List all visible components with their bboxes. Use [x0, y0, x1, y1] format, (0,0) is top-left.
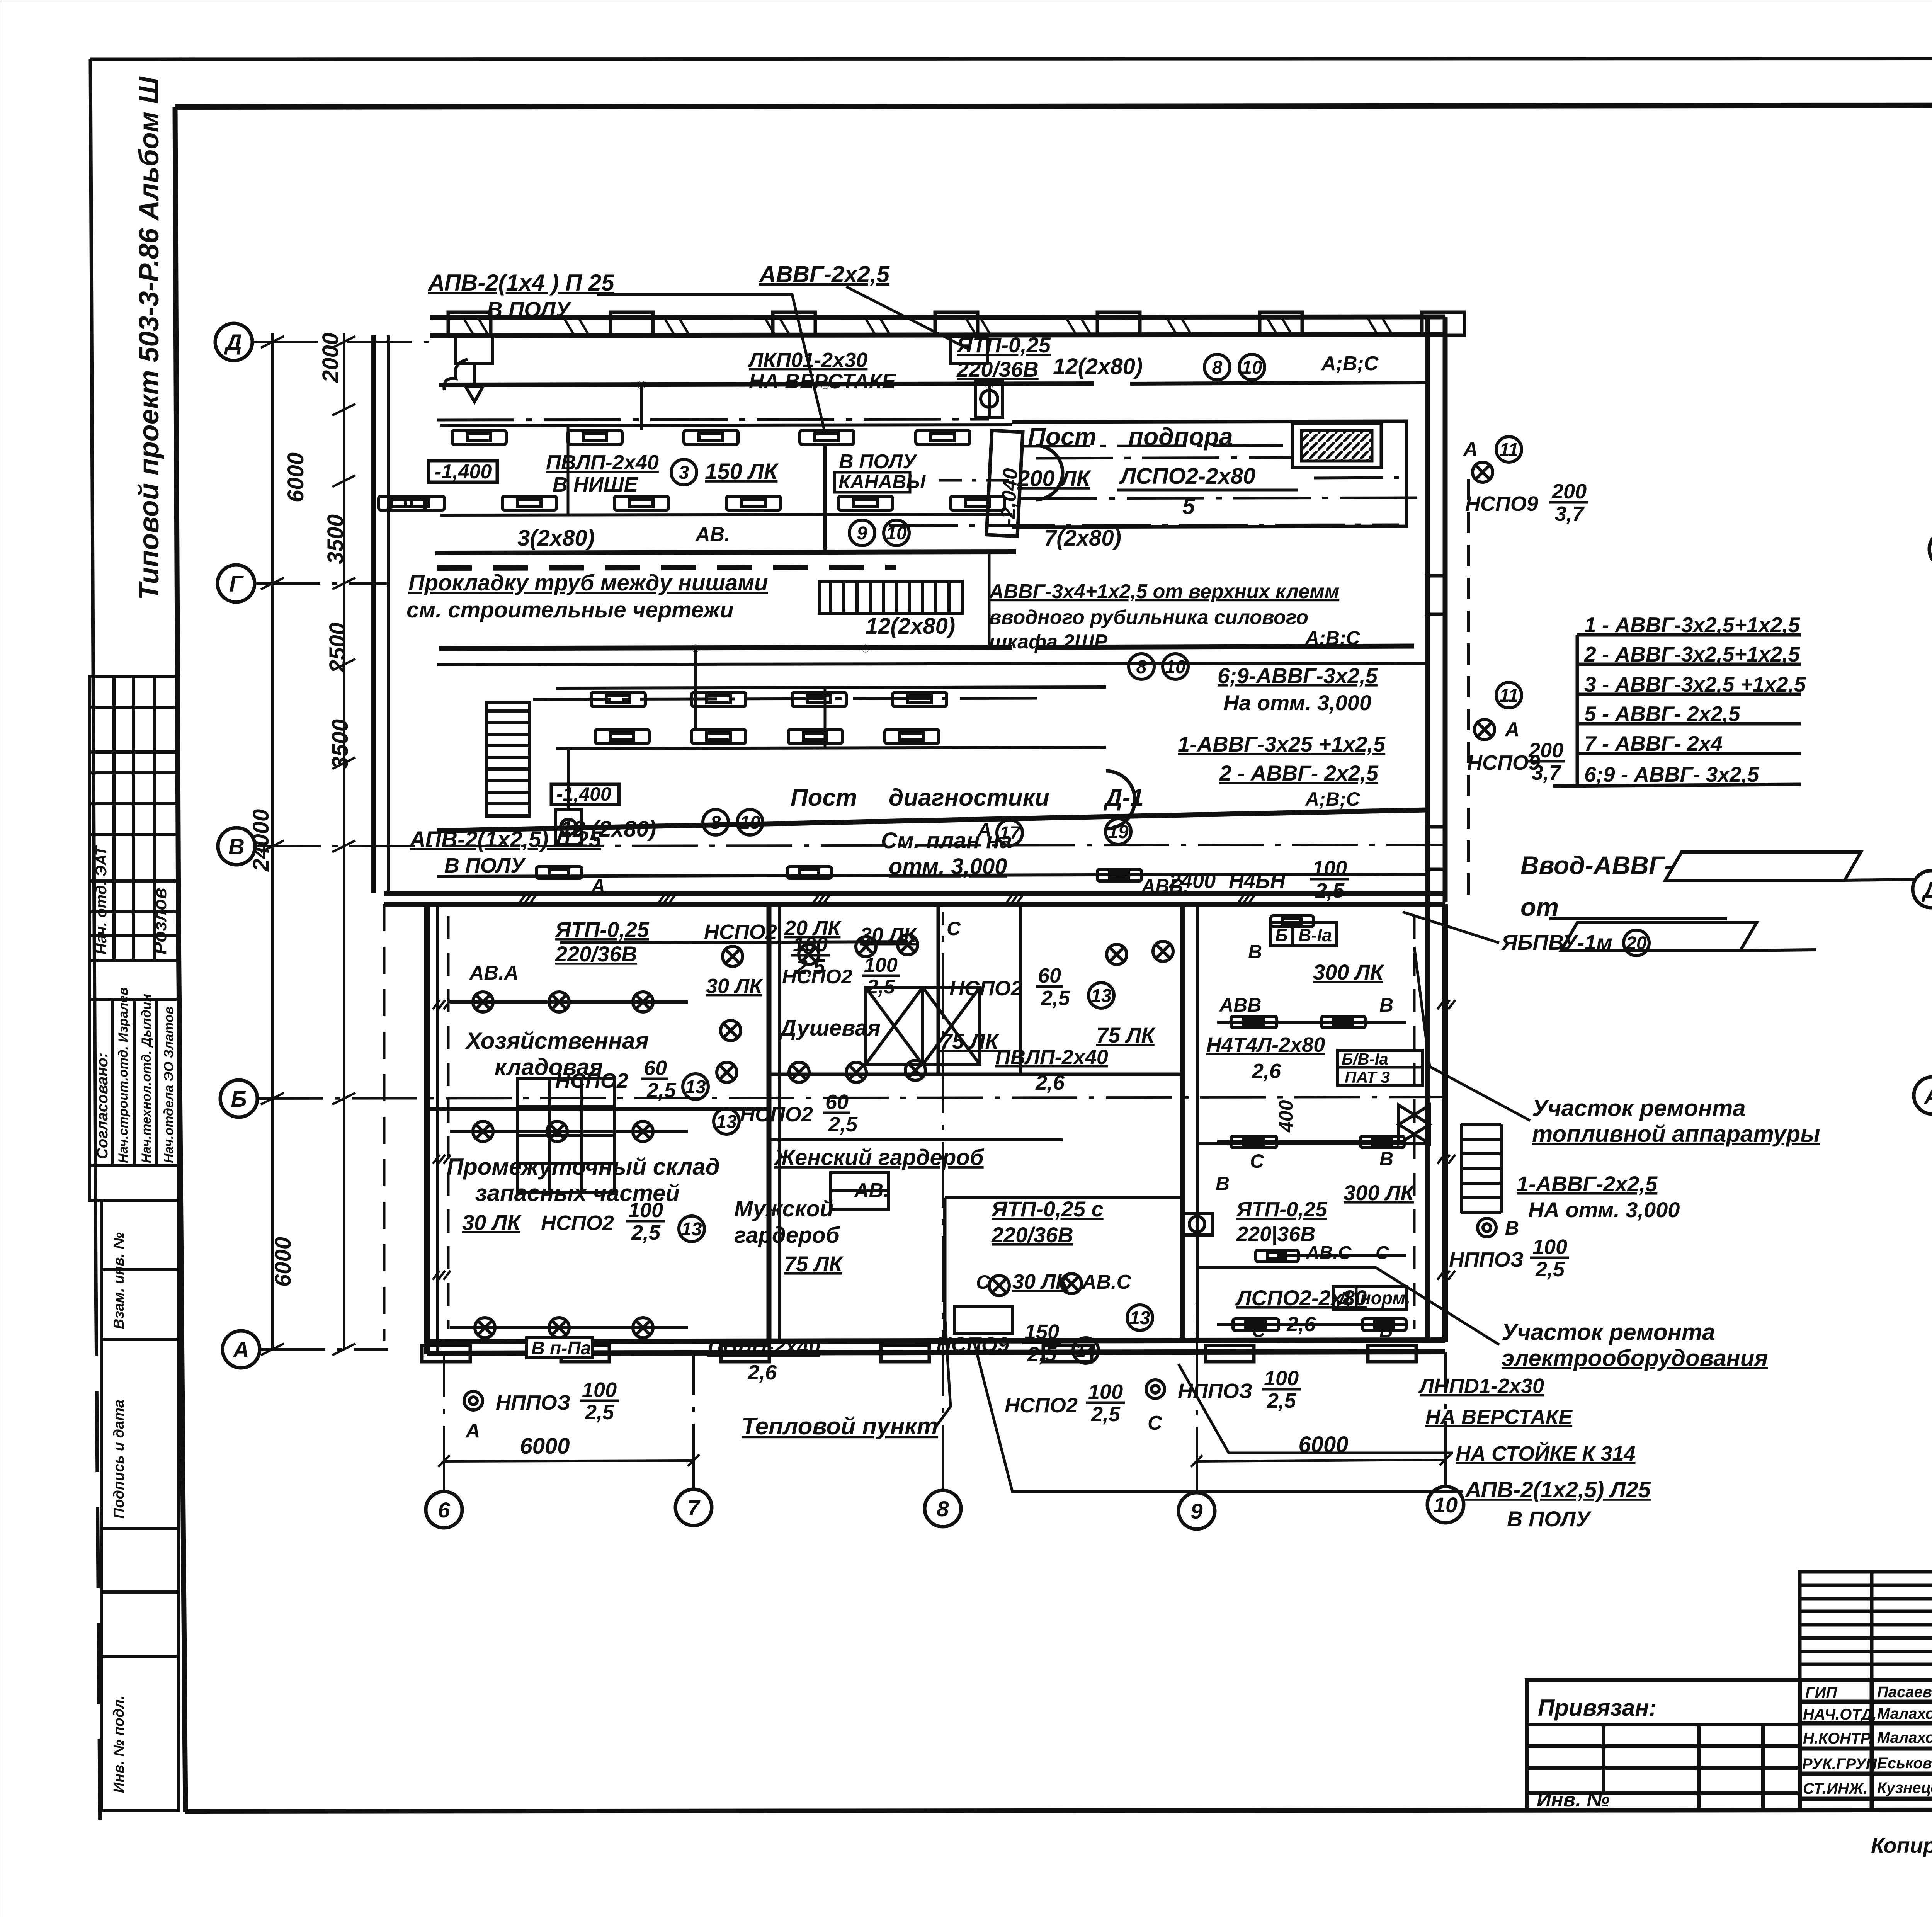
circuit number 10 [884, 520, 909, 546]
luminaire ПВЛП row2-3 [614, 496, 668, 510]
svg-text:200: 200 [1528, 739, 1563, 762]
luminaire уч 1 [1231, 1016, 1277, 1028]
svg-text:100: 100 [582, 1378, 617, 1402]
axis line А [260, 1348, 388, 1351]
svg-text:7 - АВВГ- 2х4: 7 - АВВГ- 2х4 [1584, 731, 1723, 755]
luminaire уч 3 [1231, 1136, 1277, 1148]
luminaire ПВЛП row2-5 [838, 496, 893, 510]
luminaire ПВЛП row2-4 [726, 496, 781, 510]
drawing frame left [175, 107, 185, 1812]
svg-text:2,5: 2,5 [1267, 1389, 1296, 1412]
fraction НППОЗ bl [580, 1378, 619, 1424]
svg-text:отм. 3,000: отм. 3,000 [889, 854, 1007, 879]
svg-text:В ПОЛУ: В ПОЛУ [444, 854, 526, 877]
wire уч4 [1277, 1254, 1406, 1257]
wall pilaster right 1 [1427, 576, 1445, 614]
top wall hatch band [464, 318, 1392, 334]
svg-text:Д: Д [1336, 1288, 1350, 1308]
svg-text:В: В [1216, 1173, 1230, 1194]
circuit number 13 [1127, 1305, 1153, 1330]
svg-text:2,5: 2,5 [828, 1113, 858, 1136]
axis line В [255, 845, 1445, 846]
entry hook left top [444, 359, 468, 390]
svg-text:С: С [1376, 1243, 1389, 1263]
wall тепловой top [945, 1196, 1182, 1199]
luminaire ПВЛП row2-1 [390, 496, 444, 510]
svg-text:13: 13 [1129, 1308, 1150, 1328]
svg-text:Пост: Пост [791, 784, 857, 811]
svg-text:В: В [1379, 994, 1393, 1016]
wall склад top [427, 1107, 769, 1111]
left wall upper hall inner [387, 335, 390, 893]
lower left wall [424, 904, 430, 1354]
dim tick [261, 840, 284, 852]
luminaire уч 6 [1233, 1319, 1279, 1330]
пост подпора dashdot 2 [1314, 478, 1399, 478]
svg-text:НСПО2: НСПО2 [740, 1103, 813, 1126]
svg-text:220/36В: 220/36В [991, 1223, 1073, 1247]
box Б/В-Iа ПАТ 3 [1338, 1050, 1423, 1085]
svg-text:Согласовано:: Согласовано: [94, 1053, 111, 1159]
svg-text:Инв. №: Инв. № [1537, 1789, 1610, 1811]
svg-text:НСПО2: НСПО2 [1005, 1394, 1078, 1417]
luminaire ПВЛП row2-6 [951, 496, 1005, 510]
stairs upper right [819, 581, 962, 613]
level mark -1,400 [429, 461, 497, 482]
wall гардероб [1019, 904, 1022, 1074]
lamp НСПО2 душевая [789, 1062, 809, 1082]
svg-text:220/36В: 220/36В [555, 942, 637, 966]
svg-text:А;В;С: А;В;С [1304, 788, 1361, 810]
wire vertical drop 4 [988, 381, 991, 417]
svg-text:Д-1: Д-1 [1103, 784, 1144, 811]
svg-text:9: 9 [857, 523, 867, 544]
svg-text:от: от [1520, 893, 1559, 921]
luminaire ПВЛП row1-2 [568, 430, 622, 444]
wire уч1 [1217, 1021, 1406, 1024]
svg-text:2 - АВВГ- 2х2,5: 2 - АВВГ- 2х2,5 [1219, 761, 1379, 785]
svg-text:см. строительные чертежи: см. строительные чертежи [406, 597, 734, 623]
luminaire ПВЛП row4-1 [595, 730, 649, 743]
svg-text:подпора: подпора [1128, 423, 1233, 451]
svg-text:220/36В: 220/36В [956, 357, 1039, 381]
svg-text:А: А [232, 1337, 249, 1362]
svg-text:ЛНПD1-2х30: ЛНПD1-2х30 [1418, 1374, 1544, 1398]
svg-text:Взам. инв. №: Взам. инв. № [111, 1232, 127, 1329]
wall гардероб bottom [769, 1138, 1063, 1141]
svg-text:2,5: 2,5 [1027, 1343, 1057, 1366]
wire bus 3x80 [439, 647, 1012, 648]
circuit number 8 [1129, 654, 1154, 679]
lamp НСПО2 душевая [799, 944, 819, 964]
lamp НСПО2 душевая [989, 1276, 1009, 1296]
outdoor dashed line [1467, 479, 1470, 900]
svg-text:3: 3 [679, 463, 689, 483]
svg-text:ГИП: ГИП [1805, 1684, 1837, 1701]
svg-text:А;В;С: А;В;С [1304, 627, 1361, 649]
right wall upper hall outer [1443, 317, 1448, 902]
wire кладовая row2 [450, 1130, 688, 1133]
circuit number 3 [671, 459, 697, 485]
svg-text:6;9-АВВГ-3х2,5: 6;9-АВВГ-3х2,5 [1218, 663, 1378, 688]
svg-text:10: 10 [1242, 357, 1262, 378]
svg-text:2,5: 2,5 [585, 1401, 614, 1424]
svg-text:ЯТП-0,25: ЯТП-0,25 [554, 917, 650, 942]
пост подпора dashdot 1 [1020, 446, 1291, 446]
svg-text:С: С [1148, 1412, 1163, 1434]
leader участок 2 [1198, 1267, 1499, 1345]
pit outline row1 bottom [440, 514, 1012, 515]
bottom wall [427, 1340, 1445, 1342]
lamp НСПО2 кладовая [473, 992, 493, 1012]
label канавы box [835, 472, 910, 492]
svg-text:НСПО9: НСПО9 [1465, 492, 1538, 515]
top-left door detail [456, 336, 493, 402]
svg-text:НА ВЕРСТАКЕ: НА ВЕРСТАКЕ [1425, 1405, 1573, 1429]
title block: names rows [1800, 1680, 1932, 1810]
circuit number 14 [1073, 1338, 1099, 1363]
luminaire ПВЛП row4-3 [788, 730, 842, 743]
svg-text:В ПОЛУ: В ПОЛУ [1507, 1507, 1592, 1531]
dim tick [261, 578, 284, 589]
luminaire cor r1 [1271, 916, 1313, 927]
svg-text:30 ЛК: 30 ЛК [860, 924, 918, 947]
svg-text:9: 9 [1190, 1499, 1202, 1523]
pit outline row1 top [440, 425, 1012, 425]
lamp НСПО2 душевая [721, 1021, 741, 1041]
axis line 10 [1444, 1352, 1447, 1487]
middle wall band [384, 891, 1445, 896]
svg-text:100: 100 [1532, 1235, 1567, 1259]
svg-text:Участок ремонта: Участок ремонта [1532, 1095, 1746, 1121]
svg-text:300 ЛК: 300 ЛК [1344, 1180, 1415, 1205]
stairs right side [1461, 1124, 1501, 1213]
svg-text:Копировал: Копировал [1871, 1833, 1932, 1857]
svg-text:Б: Б [231, 1087, 247, 1112]
svg-text:ЛКП01-2х30: ЛКП01-2х30 [747, 349, 867, 372]
svg-text:ПВЛП-2х40: ПВЛП-2х40 [707, 1335, 820, 1358]
luminaire corridor 2 [787, 867, 832, 878]
axis circle В [218, 828, 255, 865]
lamp НСПО2 душевая [1153, 941, 1173, 961]
svg-text:60: 60 [825, 1090, 849, 1114]
pit outline row2 bottom [556, 747, 1106, 748]
svg-text:2500: 2500 [325, 623, 350, 673]
circuit number 9 [849, 520, 875, 546]
мужской гардероб bench [831, 1173, 889, 1209]
svg-text:АВ.: АВ. [695, 523, 730, 546]
circuit number 10 [1163, 654, 1188, 679]
svg-text:Нач.строит.отд. Изралев: Нач.строит.отд. Изралев [116, 987, 131, 1163]
wire bus lower hall [560, 942, 908, 943]
top wall columns [448, 312, 1464, 335]
svg-text:6000: 6000 [283, 452, 308, 502]
svg-text:3(2х80): 3(2х80) [517, 526, 595, 551]
luminaire ПВЛП row3-4 [893, 692, 947, 706]
luminaire ПВЛП row2-7 [379, 496, 425, 510]
dim line inner [343, 333, 345, 1349]
svg-text:АПВ-2(1х4 ) П 25: АПВ-2(1х4 ) П 25 [427, 270, 615, 296]
svg-text:ПВЛП-2х40: ПВЛП-2х40 [546, 451, 659, 474]
svg-text:2,5: 2,5 [1091, 1403, 1121, 1426]
svg-text:2400: 2400 [1169, 869, 1216, 893]
wall тепловой пункт left [943, 1198, 947, 1342]
wire bus top right segment [1130, 383, 1426, 384]
svg-text:24000: 24000 [248, 809, 274, 872]
НППОЗ lamp bottom right [1146, 1380, 1165, 1398]
svg-text:Прокладку труб между нишами: Прокладку труб между нишами [408, 570, 768, 595]
svg-text:3,7: 3,7 [1532, 761, 1562, 784]
svg-text:60: 60 [644, 1056, 667, 1080]
svg-text:Н.КОНТР.: Н.КОНТР. [1803, 1730, 1873, 1747]
luminaire ПВЛП row3-3 [792, 692, 846, 706]
svg-text:30 ЛК: 30 ЛК [706, 975, 764, 998]
wall душевая bottom [769, 1073, 1182, 1076]
svg-text:200 ЛК: 200 ЛК [1017, 466, 1092, 491]
dim tick [261, 1093, 284, 1104]
outdoor lamp 1 [1473, 462, 1493, 482]
sheet outer border left [90, 59, 96, 1275]
svg-text:Еськова: Еськова [1877, 1755, 1932, 1772]
svg-text:Нач. отд. ЭАТ: Нач. отд. ЭАТ [93, 845, 110, 954]
wall axis9 b [1196, 904, 1199, 1342]
svg-text:НППОЗ: НППОЗ [1449, 1248, 1524, 1271]
svg-text:60: 60 [1038, 964, 1061, 987]
svg-text:вводного рубильника силового: вводного рубильника силового [989, 606, 1308, 629]
fraction НППОЗ br [1262, 1367, 1301, 1412]
svg-text:АВ.С: АВ.С [1306, 1243, 1352, 1263]
svg-text:7: 7 [687, 1495, 701, 1520]
svg-text:А: А [1463, 438, 1478, 461]
title block: names table upper grid [1800, 1572, 1932, 1680]
svg-text:2,5: 2,5 [1535, 1258, 1565, 1281]
circuit number 8 [703, 810, 728, 835]
svg-text:С: С [976, 1271, 990, 1293]
svg-text:Н4БН: Н4БН [1229, 869, 1286, 893]
svg-text:норм.: норм. [1360, 1288, 1410, 1308]
leader тепловой [935, 1314, 951, 1428]
right wall lower outer [1442, 904, 1448, 1342]
ЯТП post symbol 2 [556, 810, 581, 844]
svg-text:100: 100 [1312, 857, 1347, 880]
svg-text:5: 5 [1182, 494, 1195, 519]
svg-text:В НИШЕ: В НИШЕ [553, 473, 639, 496]
lamp НСПО2 душевая [723, 946, 743, 966]
svg-text:1-АВВГ-2х2,5: 1-АВВГ-2х2,5 [1517, 1172, 1658, 1196]
drawing frame bottom [185, 1809, 1932, 1812]
luminaire уч 2 [1321, 1016, 1365, 1028]
luminaire ПВЛП row3-1 [591, 692, 645, 706]
dim tick [332, 404, 355, 415]
пост подпора room outline [1012, 421, 1406, 527]
dashed circuit lower 2 [1413, 916, 1416, 1329]
wall btw кладовая and душевая b [778, 904, 781, 1342]
svg-text:100: 100 [1088, 1380, 1123, 1403]
luminaire уч 7 [1362, 1319, 1406, 1330]
wire кладовая row1 [450, 1000, 688, 1004]
lamp НСПО2 кладовая [633, 1318, 653, 1338]
box Д норм [1333, 1287, 1406, 1309]
svg-text:17: 17 [999, 823, 1021, 844]
outdoor lamp 2 [1475, 720, 1495, 740]
wire riser 2 [824, 688, 827, 747]
lamp НСПО2 душевая [898, 935, 918, 955]
axis line 6 [443, 1352, 445, 1492]
dim line bottom 6-7 [444, 1461, 694, 1461]
dim line outer [271, 333, 274, 1349]
svg-text:НАЧ.ОТД.: НАЧ.ОТД. [1803, 1706, 1877, 1723]
dim tick [332, 659, 355, 670]
circuit number 13 [679, 1216, 704, 1242]
svg-text:АВ.А: АВ.А [469, 962, 519, 984]
svg-text:200: 200 [1551, 480, 1587, 503]
luminaire ПВЛП row1-3 [684, 430, 738, 444]
drawing frame top [175, 105, 1932, 107]
dim tick [261, 336, 284, 348]
fraction 6 [626, 1199, 665, 1244]
svg-text:8: 8 [711, 813, 721, 833]
door arc [1036, 446, 1063, 500]
wire bus under [437, 663, 1426, 665]
axis circle Б [220, 1080, 257, 1117]
axis circle Г [218, 565, 255, 602]
svg-text:АВВ: АВВ [1219, 994, 1261, 1016]
fraction НППОЗ right [1530, 1235, 1569, 1281]
НППОЗ lamp bottom left [464, 1391, 483, 1410]
fraction 200/3,7 b [1526, 739, 1565, 784]
svg-text:10: 10 [886, 523, 907, 544]
svg-text:НППОЗ: НППОЗ [496, 1391, 570, 1414]
svg-text:Г: Г [229, 572, 244, 597]
svg-text:75 ЛК: 75 ЛК [784, 1252, 844, 1276]
circuit number 19 [1105, 819, 1131, 844]
svg-text:Малахов: Малахов [1877, 1729, 1932, 1746]
vent box -2,040 [986, 430, 1023, 536]
dim tick bottom [1191, 1455, 1202, 1467]
dim tick [332, 475, 355, 487]
svg-text:топливной аппаратуры: топливной аппаратуры [1532, 1121, 1820, 1147]
svg-text:В: В [1248, 941, 1262, 963]
svg-text:11: 11 [1499, 440, 1519, 460]
luminaire ПВЛП row1-5 [916, 430, 970, 444]
bottom wall columns [422, 1345, 1416, 1362]
wire bus top [439, 384, 1094, 385]
axis circle Д [215, 323, 252, 361]
svg-text:См. план на: См. план на [881, 828, 1012, 853]
right wall lower [1425, 904, 1430, 1342]
leader стойка [1179, 1364, 1453, 1453]
svg-text:12(2х80): 12(2х80) [1053, 354, 1143, 379]
svg-text:Ввод-АВВГ-: Ввод-АВВГ- [1520, 851, 1673, 879]
leader пост подпора [1036, 458, 1294, 458]
svg-text:100: 100 [628, 1199, 663, 1222]
wall душевая right [937, 904, 940, 1074]
luminaire ПВЛП row1-1 [452, 430, 506, 444]
bottom wall inner [427, 1352, 1445, 1353]
svg-text:100: 100 [1264, 1367, 1299, 1390]
svg-text:КАНАВЫ: КАНАВЫ [838, 471, 926, 493]
svg-text:ПАТ 3: ПАТ 3 [1345, 1068, 1390, 1086]
НППОЗ lamp стена [1478, 1218, 1496, 1237]
svg-text:2,6: 2,6 [1035, 1071, 1065, 1094]
svg-text:75 ЛК: 75 ЛК [1096, 1023, 1156, 1047]
circuit number 17 [997, 820, 1022, 845]
dashed trench line [437, 567, 896, 568]
pit cap lower [1106, 771, 1135, 829]
wire кладовая row3 [450, 1326, 688, 1329]
svg-text:АВВГ-3х4+1х2,5 от верхних клем: АВВГ-3х4+1х2,5 от верхних клемм [988, 580, 1339, 603]
title block: привязан table [1527, 1680, 1800, 1810]
label В п-IIа box [527, 1338, 592, 1358]
dim tick [332, 757, 355, 769]
leader АПВ бот [974, 1341, 1463, 1492]
leader АПВ [597, 294, 825, 433]
lamp НСПО2 душевая [1061, 1274, 1082, 1294]
svg-text:СТ.ИНЖ.: СТ.ИНЖ. [1803, 1780, 1867, 1797]
fraction 2 [862, 954, 900, 998]
wall btw кладовая and душевая [767, 904, 772, 1342]
svg-text:2,6: 2,6 [1252, 1060, 1281, 1083]
ввод parallelogram 1 [1665, 852, 1861, 880]
svg-text:гардероб: гардероб [734, 1223, 840, 1248]
схема axis А [1914, 1077, 1932, 1114]
svg-text:3 - АВВГ-3х2,5 +1х2,5: 3 - АВВГ-3х2,5 +1х2,5 [1584, 672, 1806, 696]
dashed circuit lower left [447, 916, 450, 1329]
svg-text:10: 10 [1165, 657, 1186, 677]
fraction 3 [1036, 964, 1070, 1010]
svg-text:Женский гардероб: Женский гардероб [773, 1145, 985, 1170]
wire riser 3 [988, 553, 991, 647]
fraction 5 [823, 1090, 858, 1136]
circuit number 13 [1088, 983, 1114, 1008]
svg-text:2000: 2000 [318, 333, 343, 383]
axis circle А fragment [1929, 531, 1932, 568]
svg-text:А: А [465, 1420, 480, 1442]
svg-text:13: 13 [1091, 986, 1112, 1006]
svg-text:2 - АВВГ-3х2,5+1х2,5: 2 - АВВГ-3х2,5+1х2,5 [1584, 642, 1800, 666]
circuit number 11 [1496, 682, 1522, 708]
wire vertical drop 2 [823, 444, 827, 552]
axis line Д [252, 341, 440, 343]
svg-text:А: А [1923, 1084, 1932, 1109]
wire bus 7x80 [1036, 646, 1414, 647]
axis circle 8 [925, 1490, 961, 1527]
svg-text:6000: 6000 [270, 1237, 296, 1287]
wire dashdot row2 [1020, 498, 1426, 498]
wire vertical drop 1 [640, 385, 643, 430]
axis line 7 [692, 1352, 695, 1489]
ЯТП box symbol [1182, 1213, 1213, 1235]
leader участок 1 [1414, 947, 1530, 1121]
svg-text:20 ЛК: 20 ЛК [784, 917, 842, 940]
svg-text:300 ЛК: 300 ЛК [1313, 960, 1384, 984]
svg-text:электрооборудования: электрооборудования [1502, 1345, 1768, 1371]
left stamp strip rotated texts [93, 845, 176, 1793]
axis circle 10 [1427, 1487, 1464, 1523]
svg-text:12(2х80): 12(2х80) [866, 614, 955, 639]
lamp НСПО2 душевая [905, 1060, 925, 1080]
lspo underline [1117, 489, 1298, 492]
luminaire уч 4 [1361, 1136, 1404, 1148]
wall axis9 [1180, 904, 1185, 1342]
svg-text:Подпись и дата: Подпись и дата [111, 1400, 127, 1519]
luminaire ПВЛП row2-2 [502, 496, 556, 510]
svg-text:400: 400 [1275, 1100, 1297, 1133]
svg-text:Д: Д [1921, 878, 1932, 903]
axis circle 6 [426, 1492, 462, 1528]
wire dashdot row3 [533, 698, 1043, 699]
пост подпора dashdot 3 [889, 525, 1399, 526]
